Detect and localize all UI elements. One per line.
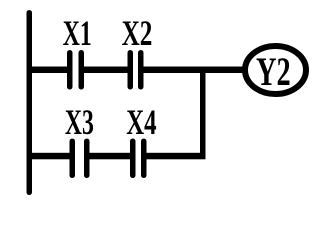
wire: branch junction vertical (bottom rung to top rung) <box>200 67 206 160</box>
contact X1 left bar <box>67 50 73 90</box>
coil Y2 <box>245 46 306 94</box>
contact X2 right bar <box>138 50 144 90</box>
wire: X2 to coil Y2 <box>143 67 243 74</box>
wire: rail to contact X3 <box>29 153 71 160</box>
left power rail <box>27 10 33 195</box>
contact X4 right bar <box>141 139 147 179</box>
wire: X1 to X2 <box>83 67 129 74</box>
wire: rail to contact X1 <box>29 67 68 74</box>
wire: X4 to branch corner <box>146 153 206 160</box>
svg-text:X2: X2 <box>122 12 153 53</box>
svg-text:Y2: Y2 <box>256 49 291 94</box>
svg-text:X3: X3 <box>65 102 94 142</box>
contact X2 left bar <box>128 50 134 90</box>
contact X3 right bar <box>84 139 90 179</box>
svg-text:X4: X4 <box>126 101 156 142</box>
wire: X3 to X4 <box>89 153 132 160</box>
contact X4 left bar <box>130 139 136 179</box>
contact X3 left bar <box>70 139 76 179</box>
contact X1 right bar <box>79 50 85 90</box>
svg-text:X1: X1 <box>63 13 92 53</box>
